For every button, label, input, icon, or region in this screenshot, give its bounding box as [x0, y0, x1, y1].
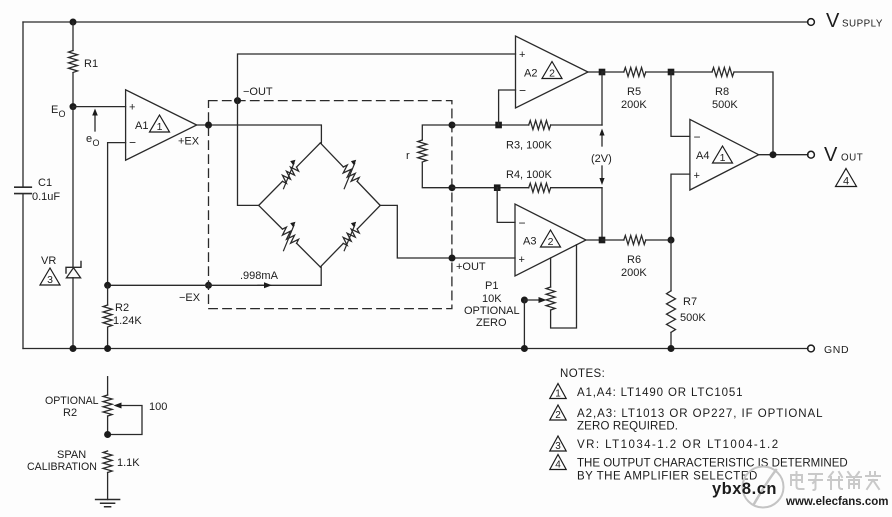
svg-text:V: V — [826, 10, 840, 32]
ground rail — [23, 348, 808, 350]
resistor R8 — [671, 71, 712, 73]
wire: A4 inverting input — [671, 72, 690, 136]
wire: A4 + input from R6 node — [671, 174, 690, 240]
node -EX terminal on box — [205, 282, 212, 289]
strain gauge top-left — [259, 143, 321, 206]
resistor R1 — [72, 22, 74, 51]
resistor R5 — [602, 71, 624, 73]
svg-text:0.1uF: 0.1uF — [32, 191, 60, 203]
wire: A1 inverting input from -EX node — [108, 143, 126, 286]
svg-text:10K: 10K — [482, 293, 502, 305]
strain gauge bottom-right — [320, 205, 380, 267]
svg-text:CALIBRATION: CALIBRATION — [27, 461, 97, 473]
svg-text:R1: R1 — [84, 58, 98, 70]
svg-text:−: − — [129, 136, 136, 150]
wire: A2 inverting input — [499, 90, 516, 125]
wire + resistor R4 row — [452, 187, 529, 189]
svg-text:A1,A4: LT1490 OR LTC1051: A1,A4: LT1490 OR LTC1051 — [577, 387, 743, 399]
node -OUT terminal on box — [234, 97, 241, 104]
svg-text:−OUT: −OUT — [243, 86, 273, 98]
node top rail / R1 — [70, 19, 77, 26]
svg-text:2: 2 — [549, 67, 555, 79]
svg-text:NOTES:: NOTES: — [560, 368, 605, 380]
wire: -OUT to A2 + input — [238, 54, 516, 101]
wire: left rail down to C1 — [22, 22, 24, 187]
svg-text:www.elecfans.com: www.elecfans.com — [785, 496, 888, 508]
svg-text:C1: C1 — [38, 177, 52, 189]
svg-text:SPAN: SPAN — [57, 449, 86, 461]
svg-text:−: − — [694, 130, 701, 144]
node r top terminal — [449, 122, 456, 129]
svg-text:ZERO REQUIRED.: ZERO REQUIRED. — [577, 421, 678, 433]
ground symbol — [96, 500, 120, 507]
svg-text:+: + — [694, 170, 700, 182]
zener VR — [66, 262, 81, 274]
svg-text:−: − — [519, 84, 526, 98]
svg-text:2: 2 — [548, 236, 554, 248]
svg-text:3: 3 — [47, 274, 53, 286]
terminal V OUT — [808, 151, 815, 158]
wire: V supply top rail — [23, 21, 808, 23]
svg-text:A3: A3 — [523, 236, 536, 248]
terminal GND — [808, 345, 815, 352]
annotation arrow eO — [94, 114, 96, 131]
transducer dashed box — [209, 101, 452, 309]
svg-text:A2: A2 — [524, 68, 537, 80]
svg-text:R2: R2 — [115, 302, 129, 314]
svg-text:100: 100 — [149, 401, 167, 413]
svg-text:3: 3 — [555, 441, 561, 452]
svg-text:200K: 200K — [621, 267, 647, 279]
wire: A1 output +EX — [197, 125, 322, 143]
svg-text:R7: R7 — [683, 296, 697, 308]
terminal V SUPPLY — [808, 19, 815, 26]
svg-text:E: E — [51, 104, 58, 116]
svg-text:R8: R8 — [715, 86, 729, 98]
resistor R6 — [602, 239, 624, 241]
svg-text:A4: A4 — [696, 150, 709, 162]
svg-text:V: V — [824, 144, 838, 166]
svg-text:4: 4 — [843, 175, 849, 187]
svg-text:r: r — [406, 150, 410, 162]
wire: A3 inverting input to R4 — [497, 188, 515, 223]
svg-text:+OUT: +OUT — [456, 261, 486, 273]
wire: top stub — [107, 377, 109, 395]
svg-text:1: 1 — [720, 152, 726, 164]
svg-text:+: + — [519, 254, 525, 266]
svg-text:R4, 100K: R4, 100K — [506, 169, 553, 181]
svg-text:500K: 500K — [680, 312, 706, 324]
resistor r inside box — [422, 125, 452, 140]
svg-text:+EX: +EX — [178, 136, 200, 148]
svg-text:(2V): (2V) — [591, 153, 612, 165]
resistor R2 — [107, 285, 109, 305]
strain gauge bottom-left — [259, 205, 321, 267]
bridge diamond wires — [259, 143, 381, 267]
node +EX terminal on box — [205, 122, 212, 129]
svg-text:OPTIONAL: OPTIONAL — [464, 305, 520, 317]
svg-text:−EX: −EX — [179, 292, 201, 304]
svg-text:R5: R5 — [627, 86, 641, 98]
svg-text:R2: R2 — [63, 407, 77, 419]
strain gauge top-right — [320, 143, 380, 206]
svg-text:THE OUTPUT CHARACTERISTIC IS D: THE OUTPUT CHARACTERISTIC IS DETERMINED — [577, 458, 848, 470]
svg-text:GND: GND — [824, 344, 849, 356]
svg-text:O: O — [93, 138, 100, 148]
wiper optional R2 — [108, 406, 142, 435]
svg-text:1: 1 — [555, 388, 561, 399]
svg-text:VR: VR — [41, 255, 56, 267]
svg-text:A2,A3: LT1013 OR OP227, IF OPT: A2,A3: LT1013 OR OP227, IF OPTIONAL — [577, 408, 824, 420]
wire: R4 corner down to A3 out node — [601, 188, 603, 240]
svg-text:P1: P1 — [485, 280, 498, 292]
svg-text:4: 4 — [555, 459, 561, 470]
svg-text:O: O — [59, 109, 66, 119]
wire: A4 output to VOUT — [759, 154, 808, 156]
watermark chinese — [791, 472, 880, 490]
capacitor C1 — [15, 187, 32, 193]
svg-text:2: 2 — [555, 410, 561, 421]
svg-text:e: e — [86, 133, 92, 145]
svg-text:OUT: OUT — [841, 153, 863, 164]
op-amp A3 — [515, 204, 586, 276]
P1 wiper — [521, 297, 528, 304]
wire: -EX line to bridge bottom — [108, 267, 322, 285]
wire: bridge left to -OUT — [238, 101, 259, 206]
resistor span calibration 1.1K — [103, 451, 112, 473]
wire: left rail below C1 — [22, 194, 24, 349]
svg-text:+: + — [519, 49, 525, 61]
svg-text:200K: 200K — [621, 99, 647, 111]
svg-text:R6: R6 — [627, 254, 641, 266]
watermark logo circle — [743, 467, 784, 508]
svg-text:OPTIONAL: OPTIONAL — [45, 395, 99, 407]
svg-text:.998mA: .998mA — [240, 270, 279, 282]
svg-text:500K: 500K — [712, 99, 738, 111]
svg-text:R3, 100K: R3, 100K — [506, 140, 553, 152]
wire: bridge right to +OUT — [380, 205, 515, 258]
annotation (2V) arrows — [601, 135, 603, 146]
node r bottom terminal — [449, 184, 456, 191]
svg-text:ZERO: ZERO — [476, 317, 507, 329]
op-amp A2 — [516, 36, 589, 108]
node +OUT terminal on box — [449, 255, 456, 262]
op-amp A1 — [126, 90, 197, 160]
op-amp A4 — [690, 119, 759, 190]
wire: A2 out down to R3 — [601, 72, 603, 125]
wire: A2 output — [588, 71, 602, 73]
wire: EO to A1 + input — [73, 106, 126, 108]
wire + resistor R3 row — [452, 124, 529, 126]
svg-text:1.1K: 1.1K — [117, 457, 140, 469]
wire: zener branch — [72, 107, 74, 268]
svg-text:1.24K: 1.24K — [113, 315, 142, 327]
svg-text:A1: A1 — [135, 120, 148, 132]
potentiometer P1 — [550, 258, 552, 287]
svg-text:ybx8.cn: ybx8.cn — [712, 480, 777, 498]
potentiometer optional R2 — [103, 395, 112, 416]
svg-text:+: + — [129, 102, 135, 114]
svg-text:−: − — [519, 216, 526, 230]
svg-text:VR: LT1034-1.2 OR LT1004-1.2: VR: LT1034-1.2 OR LT1004-1.2 — [577, 439, 780, 451]
resistor R7 — [670, 240, 672, 291]
svg-text:SUPPLY: SUPPLY — [842, 19, 883, 30]
wire: A3 output — [586, 239, 602, 241]
node EO — [70, 103, 77, 110]
svg-text:1: 1 — [157, 121, 163, 133]
